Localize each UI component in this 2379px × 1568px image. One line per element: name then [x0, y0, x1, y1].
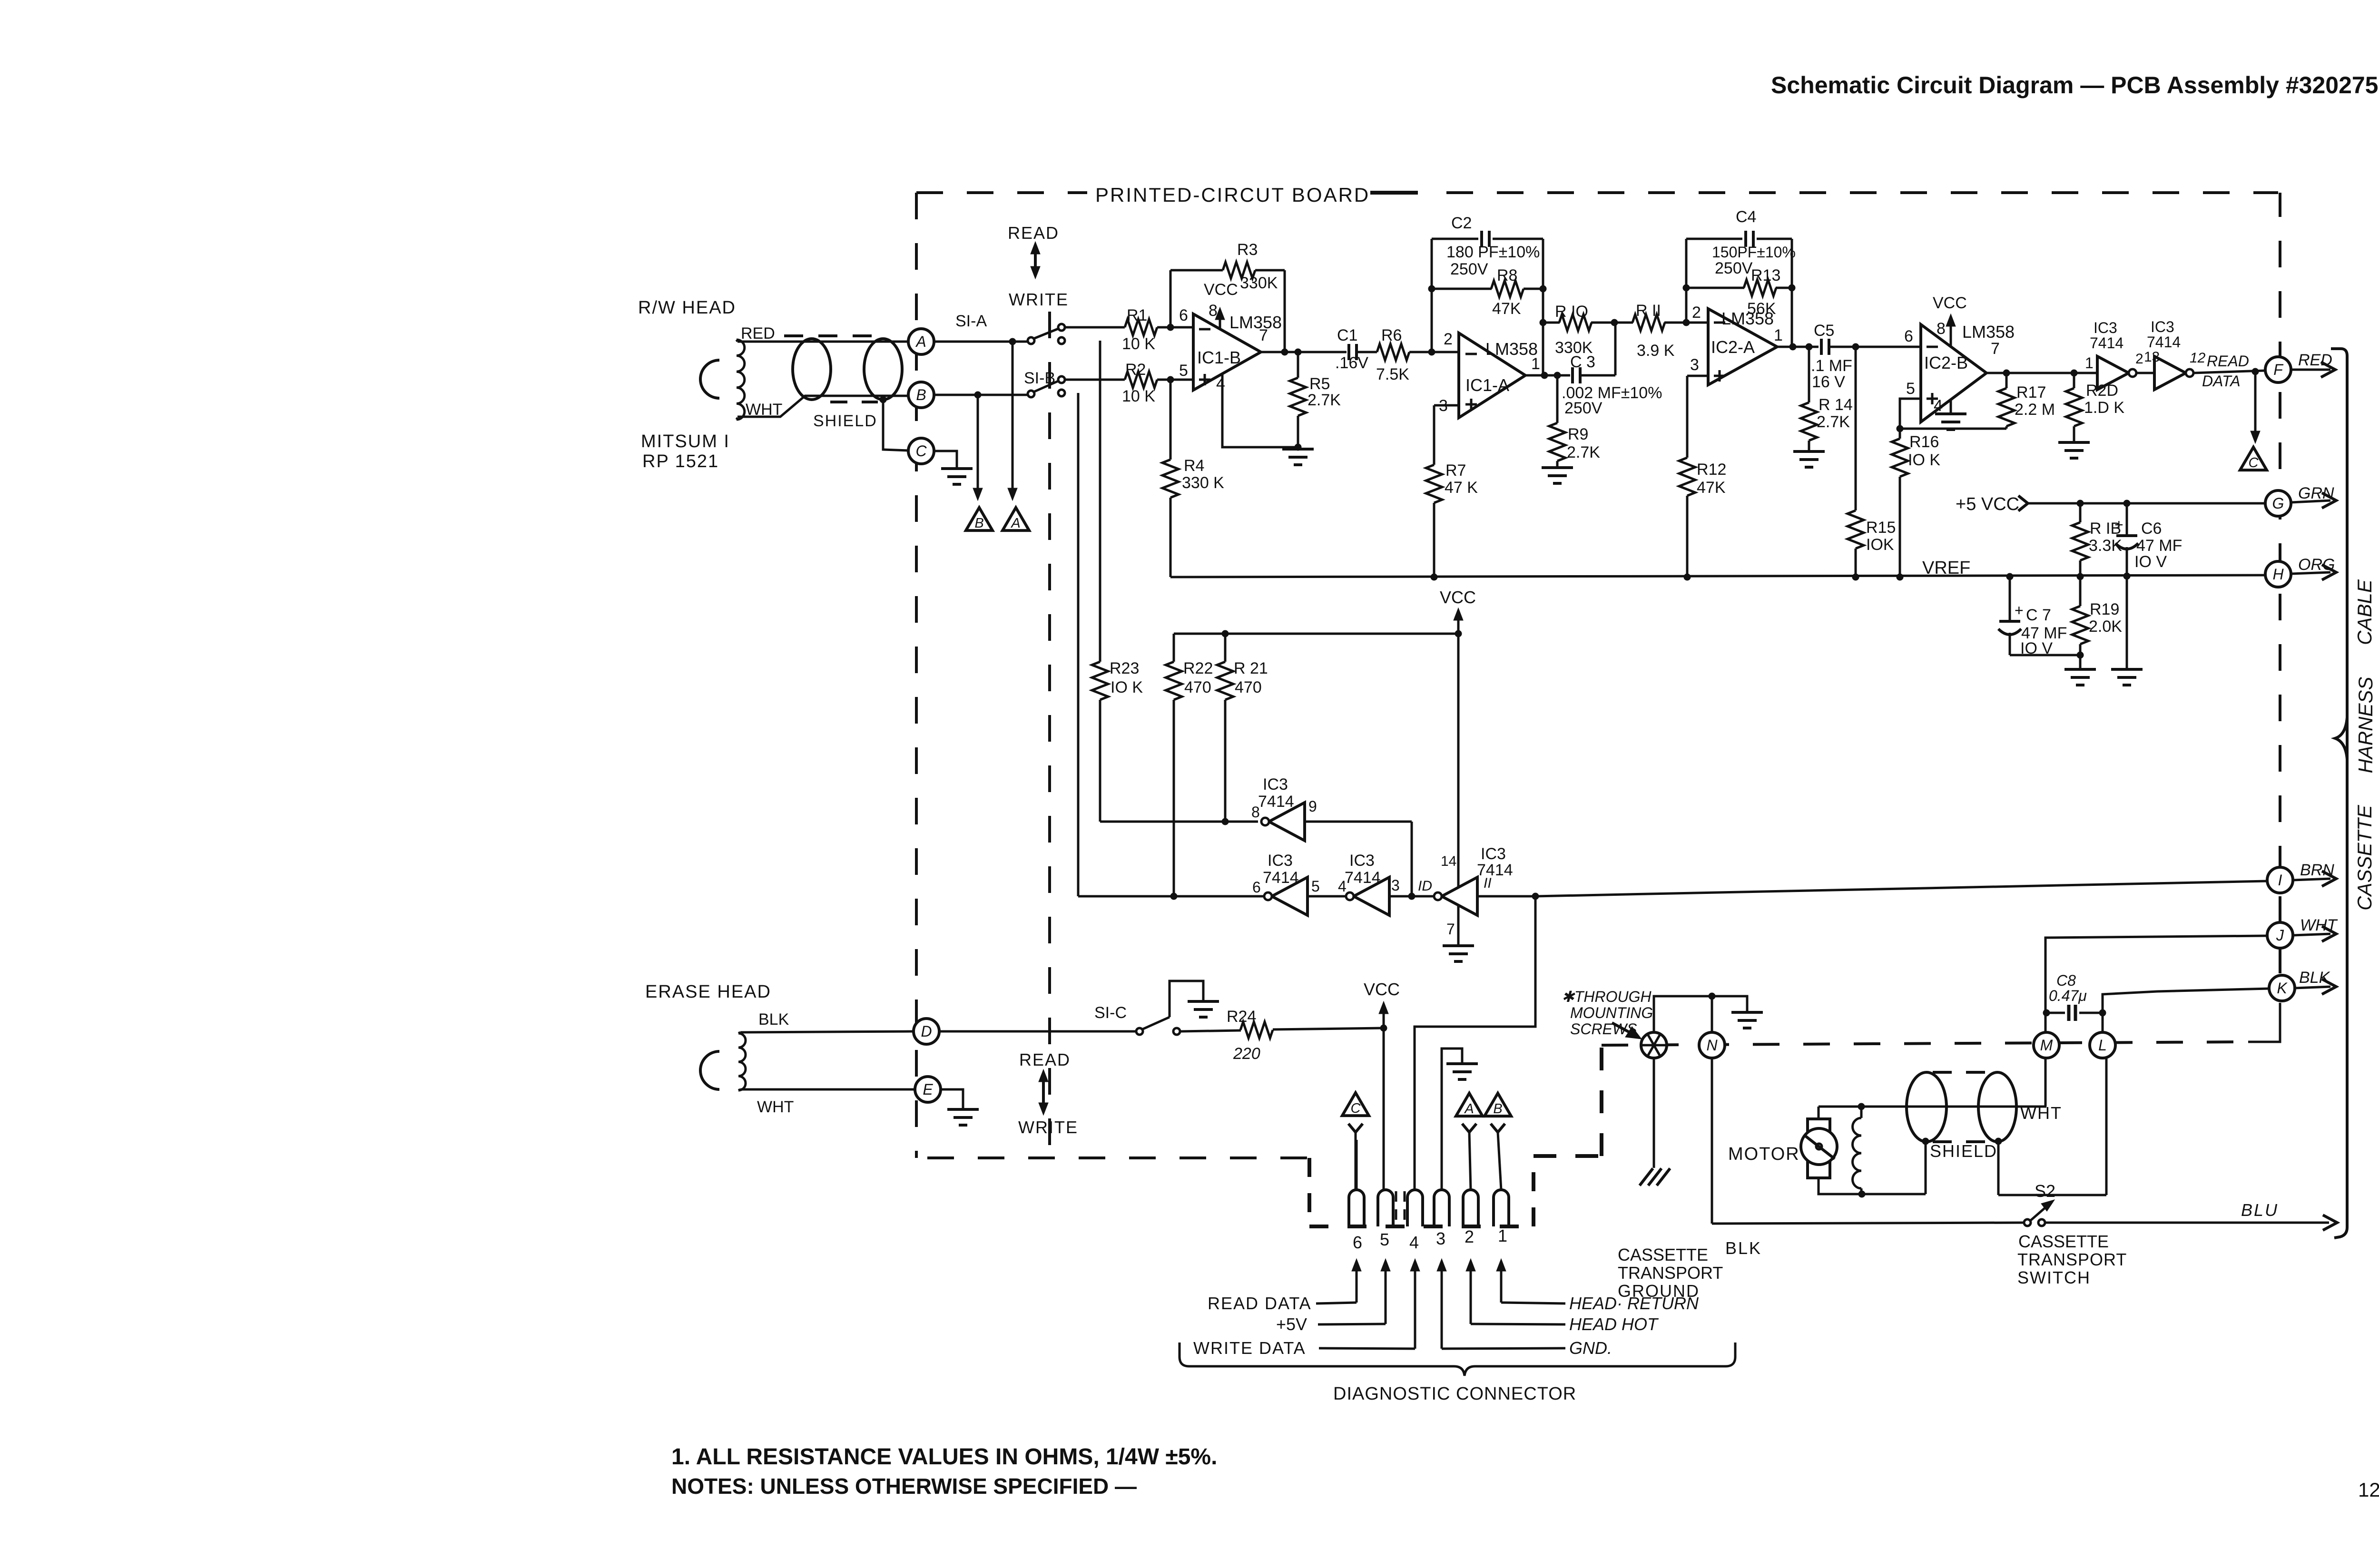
svg-text:250V: 250V — [1450, 260, 1488, 278]
label BLK erase — [758, 1010, 789, 1029]
label RP 1521 — [642, 451, 719, 471]
pcb border label — [1095, 184, 1370, 206]
label S1-A — [955, 312, 987, 330]
wire S1-C to R24 — [1180, 1030, 1241, 1031]
svg-text:MOUNTING: MOUNTING — [1570, 1004, 1653, 1021]
note line 1 — [671, 1444, 1217, 1470]
svg-text:47 MF: 47 MF — [2136, 537, 2182, 555]
label WRITE bottom — [1018, 1117, 1078, 1137]
node A triangle conn — [1456, 1093, 1483, 1190]
wire R1 to pin6 — [1157, 324, 1193, 331]
mounting screw symbol — [1641, 1032, 1667, 1058]
svg-text:VCC: VCC — [1364, 980, 1400, 999]
svg-text:IC3: IC3 — [1349, 852, 1375, 870]
svg-text:8: 8 — [1937, 320, 1946, 338]
cable brace cusp — [2335, 717, 2347, 759]
wire M risers — [2045, 1013, 2047, 1107]
svg-text:B: B — [1493, 1101, 1502, 1117]
wire C8 to K line — [2103, 989, 2269, 1013]
svg-text:A: A — [915, 333, 926, 350]
capacitor C8 — [2043, 972, 2106, 1021]
resistor R3 — [1223, 241, 1278, 292]
wire WHT to E — [740, 1088, 914, 1091]
svg-text:7: 7 — [1991, 340, 2000, 358]
resistor R5 — [1290, 352, 1341, 447]
label S2 — [2035, 1181, 2055, 1201]
svg-text:16 V: 16 V — [1812, 373, 1845, 391]
switch S1-C — [1136, 1017, 1180, 1035]
svg-text:A: A — [1010, 516, 1020, 531]
wire BLK rail — [1712, 1223, 2024, 1224]
E ground wire — [941, 1089, 963, 1108]
wire lower VCC rail — [1174, 630, 1462, 637]
svg-text:R16: R16 — [1909, 433, 1939, 451]
pin3 ground — [1442, 1049, 1478, 1190]
wire I BRN out — [2293, 861, 2336, 886]
svg-text:3: 3 — [1436, 1229, 1445, 1248]
svg-text:PRINTED-CIRCUT BOARD: PRINTED-CIRCUT BOARD — [1095, 184, 1370, 206]
svg-text:R 21: R 21 — [1234, 659, 1268, 677]
wire IC1-B feedback riser — [1170, 270, 1172, 327]
svg-text:R8: R8 — [1497, 266, 1517, 284]
svg-text:470: 470 — [1235, 678, 1262, 696]
VCC arrow IC1-B — [1204, 281, 1238, 329]
svg-text:✱THROUGH: ✱THROUGH — [1562, 988, 1652, 1005]
svg-text:C5: C5 — [1814, 322, 1834, 340]
connector arrow pin — [1466, 1259, 1475, 1324]
svg-text:RED: RED — [741, 324, 775, 343]
pin number 3 — [1436, 1229, 1445, 1248]
svg-text:1. ALL RESISTANCE VALUES IN O: 1. ALL RESISTANCE VALUES IN OHMS, 1/4W ±… — [671, 1444, 1217, 1470]
label MITSUM I — [641, 431, 730, 451]
label READ DATA — [1208, 1294, 1357, 1313]
wire node A drop — [1008, 342, 1017, 500]
pcb border jog up — [1532, 1156, 1535, 1226]
wire inverter to F — [2193, 368, 2265, 375]
connector arrow pin — [1352, 1259, 1361, 1303]
wire C2 left riser — [1428, 239, 1435, 352]
label +5 VCC — [1956, 494, 2028, 514]
screw arrow — [1612, 1023, 1642, 1039]
ground under C6 — [2111, 669, 2143, 685]
svg-text:DATA: DATA — [2202, 372, 2241, 390]
svg-text:Schematic Circuit Diagram — PC: Schematic Circuit Diagram — PCB Assembly… — [1771, 72, 2379, 98]
VCC arrow mid — [1440, 588, 1476, 634]
svg-text:3.9 K: 3.9 K — [1637, 342, 1675, 360]
switch S1-A — [1028, 324, 1065, 344]
svg-text:4: 4 — [1934, 397, 1943, 415]
svg-text:READ: READ — [1019, 1050, 1071, 1069]
wire BLK to D — [740, 1031, 913, 1032]
wire R3 rail right — [1255, 270, 1285, 352]
inverter IC3 row2 a — [1252, 852, 1320, 915]
svg-text:12: 12 — [2358, 1479, 2379, 1501]
wire J line — [2045, 936, 2267, 1013]
wire IC2-B output — [1986, 370, 2097, 376]
svg-text:VCC: VCC — [1440, 588, 1476, 607]
svg-text:R4: R4 — [1184, 457, 1204, 475]
resistor R6 — [1376, 326, 1409, 383]
wire R24 to VCC node — [1273, 1025, 1387, 1031]
svg-text:SHIELD: SHIELD — [1930, 1141, 1997, 1161]
wire IC1-B output — [1261, 349, 1347, 355]
svg-text:MOTOR: MOTOR — [1728, 1144, 1800, 1164]
svg-text:R17: R17 — [2016, 383, 2046, 402]
resistor R22 — [1166, 634, 1213, 896]
svg-text:TRANSPORT: TRANSPORT — [1618, 1263, 1723, 1283]
wire motor top — [1818, 1107, 1820, 1119]
svg-text:S2: S2 — [2035, 1181, 2055, 1201]
svg-text:VCC: VCC — [1933, 294, 1967, 312]
wire C1 to R6 — [1357, 351, 1377, 353]
svg-text:LM358: LM358 — [1229, 313, 1282, 332]
resistor R8 — [1432, 266, 1543, 318]
wire S1-A to R1 — [1065, 326, 1125, 329]
svg-text:5: 5 — [1906, 380, 1915, 398]
pcb border transport row — [1602, 1042, 2248, 1045]
switch gang dashed line — [1048, 312, 1051, 1158]
wire pin2 stub IC2-A — [1683, 319, 1708, 326]
label HEAD HOT — [1471, 1314, 1659, 1334]
capacitor C2 — [1432, 214, 1543, 278]
wire C4 right riser — [1789, 239, 1795, 347]
erase head core — [700, 1051, 719, 1089]
svg-text:R15: R15 — [1866, 519, 1896, 537]
pin number 5 — [1380, 1230, 1389, 1249]
svg-text:9: 9 — [1308, 798, 1317, 815]
motor coil — [1853, 1107, 1862, 1194]
svg-text:13: 13 — [2144, 349, 2160, 365]
svg-text:R2: R2 — [1125, 361, 1146, 379]
svg-text:D: D — [921, 1023, 932, 1040]
resistor R9 — [1549, 375, 1600, 467]
wire node B drop — [973, 395, 983, 500]
svg-text:HEAD HOT: HEAD HOT — [1569, 1314, 1659, 1334]
ground under R14 — [1793, 451, 1825, 467]
svg-text:+: + — [2015, 602, 2024, 619]
svg-text:7: 7 — [1446, 921, 1455, 938]
wire J WHT out — [2293, 916, 2338, 941]
capacitor C3 — [1562, 353, 1662, 417]
read/write arrow bottom — [1039, 1069, 1048, 1115]
S1-C ground hook — [1170, 981, 1203, 1017]
svg-text:A: A — [1464, 1101, 1474, 1117]
page number 12 — [2358, 1479, 2379, 1501]
svg-text:10 K: 10 K — [1122, 335, 1155, 353]
svg-text:WRITE DATA: WRITE DATA — [1193, 1338, 1306, 1358]
terminal E — [915, 1077, 941, 1102]
capacitor C5 — [1811, 322, 1852, 391]
svg-text:R24: R24 — [1227, 1008, 1256, 1026]
resistor R18 — [2072, 503, 2122, 577]
resistor R17 — [1998, 373, 2055, 429]
resistor R15 — [1848, 347, 1896, 577]
svg-text:R6: R6 — [1381, 326, 1402, 344]
svg-text:R5: R5 — [1309, 375, 1330, 393]
capacitor C6 — [2114, 503, 2182, 668]
svg-text:R12: R12 — [1697, 461, 1726, 479]
svg-text:IO V: IO V — [2134, 553, 2167, 571]
svg-text:IC3: IC3 — [1481, 845, 1506, 863]
wire IC1-B pin4 — [1222, 374, 1296, 447]
svg-text:WHT: WHT — [2020, 1103, 2062, 1123]
wire K BLK out — [2295, 969, 2336, 994]
svg-text:0.47μ: 0.47μ — [2049, 987, 2087, 1004]
svg-text:2.0K: 2.0K — [2089, 617, 2122, 636]
pcb border top — [916, 191, 2278, 194]
wire IC1-A output — [1525, 372, 1570, 379]
svg-text:WHT: WHT — [757, 1098, 794, 1116]
wire VCC node to pin5 — [1383, 1028, 1385, 1190]
resistor R13 — [1683, 266, 1792, 318]
svg-text:+5V: +5V — [1276, 1314, 1307, 1334]
capacitor C7 — [1998, 577, 2080, 657]
connector arrow pin — [1381, 1259, 1390, 1324]
svg-text:LM358: LM358 — [1721, 309, 1774, 328]
svg-text:B: B — [916, 386, 926, 403]
ground under R20 — [2058, 442, 2090, 458]
label HEAD RETURN — [1501, 1294, 1699, 1313]
svg-text:R22: R22 — [1183, 659, 1213, 677]
inverter IC3 row2 b — [1338, 852, 1400, 915]
read/write arrow top — [1031, 242, 1040, 279]
svg-text:G: G — [2272, 495, 2284, 512]
label SHIELD — [813, 412, 877, 430]
wire +5 VCC rail — [2028, 500, 2265, 507]
svg-text:WRITE: WRITE — [1009, 290, 1069, 309]
svg-text:BRN: BRN — [2300, 861, 2334, 879]
svg-text:7414: 7414 — [1258, 793, 1294, 811]
wire 7414 row1 — [1100, 818, 1258, 825]
svg-text:4: 4 — [1216, 375, 1225, 393]
svg-text:BLU: BLU — [2241, 1200, 2279, 1220]
VCC arrow IC2-B — [1933, 294, 1967, 346]
ground under R9 — [1542, 468, 1573, 483]
label +5V — [1276, 1314, 1386, 1334]
svg-text:M: M — [2040, 1037, 2053, 1054]
pcb border jog up 2 — [1600, 1045, 1603, 1156]
svg-text:IOK: IOK — [1866, 536, 1894, 554]
pcb border jog down — [1307, 1158, 1311, 1227]
svg-text:BLK: BLK — [1725, 1238, 1762, 1258]
svg-text:SI-A: SI-A — [955, 312, 987, 330]
ground under R5 — [1282, 444, 1314, 465]
inverter IC3 b — [2136, 318, 2206, 390]
wire H ORG out — [2291, 556, 2336, 580]
svg-text:IC1-A: IC1-A — [1465, 375, 1509, 395]
vertical label CABLE — [2353, 579, 2376, 645]
resistor R16 — [1892, 429, 1940, 577]
wire S1-B to R2 — [1065, 379, 1125, 381]
wire RED to A — [737, 341, 908, 343]
resistor R4 — [1162, 380, 1224, 577]
svg-text:L: L — [2098, 1037, 2107, 1054]
svg-text:150PF±10%: 150PF±10% — [1712, 244, 1796, 261]
svg-text:R13: R13 — [1751, 266, 1780, 284]
svg-text:7414: 7414 — [2090, 334, 2123, 352]
node B triangle conn — [1484, 1093, 1511, 1190]
svg-text:C 7: C 7 — [2026, 606, 2051, 624]
node C triangle conn — [1342, 1093, 1369, 1190]
label DIAGNOSTIC CONNECTOR — [1333, 1384, 1576, 1404]
wire VREF rail — [1170, 573, 2265, 580]
label S1-C — [1094, 1004, 1127, 1022]
svg-text:330 K: 330 K — [1182, 474, 1224, 492]
ground at S1-C — [1188, 1001, 1219, 1017]
svg-text:C: C — [1351, 1101, 1361, 1116]
terminal G — [2265, 490, 2291, 516]
svg-text:ERASE HEAD: ERASE HEAD — [645, 982, 771, 1002]
svg-text:+: + — [2114, 516, 2123, 533]
connector brace — [1180, 1343, 1735, 1376]
svg-text:R IO: R IO — [1555, 303, 1588, 321]
switch S2 — [2024, 1200, 2055, 1226]
resistor R20 — [2066, 373, 2124, 441]
svg-text:C4: C4 — [1736, 208, 1756, 226]
wire 7414 row2 left — [1078, 393, 1264, 900]
wire C3 to R10/R11 node — [1580, 324, 1615, 375]
resistor R1 — [1122, 306, 1157, 353]
svg-text:2: 2 — [2135, 351, 2143, 367]
wire motor bottom — [1819, 1178, 1926, 1197]
svg-text:IC3: IC3 — [2151, 318, 2174, 335]
ground under 7414 — [1443, 946, 1474, 961]
svg-text:R II: R II — [1636, 302, 1661, 320]
svg-text:C8: C8 — [2056, 972, 2076, 989]
terminal B — [908, 382, 934, 408]
label WHT motor — [2020, 1103, 2062, 1123]
transport ground symbol — [1640, 1168, 1670, 1186]
wire row2 to I — [1477, 881, 2267, 900]
op-amp IC1-A — [1439, 330, 1540, 418]
wire VCC to pin14 — [1457, 634, 1460, 888]
wire R6 to node2 — [1409, 349, 1435, 355]
svg-text:BLK: BLK — [758, 1010, 789, 1029]
resistor R10 — [1543, 303, 1614, 357]
terminal N — [1699, 1032, 1725, 1058]
svg-text:R1: R1 — [1127, 306, 1147, 324]
svg-text:RED: RED — [2298, 351, 2332, 369]
pcb border right — [2279, 193, 2281, 973]
terminal M — [2034, 1032, 2059, 1058]
svg-text:READ: READ — [1008, 223, 1059, 243]
pin number 2 — [1465, 1227, 1474, 1246]
terminal I — [2267, 867, 2293, 893]
inverter IC3 a — [2085, 319, 2143, 390]
inverter IC3 row1 — [1251, 775, 1317, 841]
svg-text:470: 470 — [1184, 678, 1211, 696]
wire C2 right riser — [1540, 239, 1546, 375]
svg-text:1: 1 — [1498, 1226, 1507, 1245]
inverter IC3 row2 c — [1418, 845, 1513, 915]
svg-text:IC2-B: IC2-B — [1924, 353, 1968, 372]
connector arrow pin — [1437, 1259, 1446, 1349]
resistor R2 — [1122, 361, 1157, 405]
cable harness line — [2331, 349, 2347, 1238]
label READ DATA net — [2202, 353, 2249, 390]
svg-text:6: 6 — [1179, 306, 1188, 324]
svg-text:2: 2 — [1444, 330, 1453, 348]
svg-text:READ: READ — [2207, 353, 2249, 370]
svg-text:47 K: 47 K — [1445, 479, 1478, 497]
svg-text:R2D: R2D — [2086, 382, 2118, 400]
label WHT erase — [757, 1098, 794, 1116]
svg-text:CASSETTE: CASSETTE — [1618, 1245, 1708, 1264]
svg-text:330K: 330K — [1240, 274, 1278, 292]
wire B to S1-B — [934, 392, 1028, 398]
shield tap to C — [880, 396, 908, 451]
svg-text:+5 VCC: +5 VCC — [1956, 494, 2019, 514]
wire pin2 stub IC1-A — [1432, 351, 1459, 353]
op-amp IC2-B — [1904, 320, 2015, 422]
resistor R19 — [2072, 577, 2122, 668]
svg-text:I: I — [2278, 872, 2282, 889]
svg-text:ORG: ORG — [2298, 556, 2335, 574]
svg-text:12: 12 — [2190, 350, 2206, 366]
svg-text:CASSETTE: CASSETTE — [2353, 804, 2376, 911]
vertical label CASSETTE — [2353, 804, 2376, 911]
svg-text:CABLE: CABLE — [2353, 579, 2376, 645]
label GND. — [1442, 1338, 1612, 1358]
svg-text:GND.: GND. — [1569, 1338, 1612, 1358]
svg-text:ID: ID — [1418, 878, 1432, 894]
svg-text:H: H — [2272, 566, 2284, 583]
resistor R11 — [1611, 302, 1686, 360]
svg-text:LM358: LM358 — [1485, 339, 1538, 359]
svg-text:SHIELD: SHIELD — [813, 412, 877, 430]
wire L riser top — [2102, 1013, 2104, 1032]
svg-text:6: 6 — [1353, 1233, 1362, 1252]
svg-text:C: C — [2249, 455, 2259, 470]
svg-text:BLK: BLK — [2299, 969, 2330, 987]
svg-text:IC2-A: IC2-A — [1711, 337, 1755, 357]
wire node C drop — [2251, 372, 2260, 443]
R/W head core — [700, 360, 719, 398]
svg-text:220: 220 — [1233, 1045, 1260, 1063]
label MOTOR — [1728, 1144, 1800, 1164]
label READ bottom — [1019, 1050, 1071, 1069]
svg-text:R3: R3 — [1237, 241, 1258, 259]
ground at E — [947, 1109, 979, 1125]
svg-text:K: K — [2277, 980, 2288, 997]
svg-text:GROUND: GROUND — [1618, 1281, 1700, 1301]
svg-text:CASSETTE: CASSETTE — [2018, 1232, 2109, 1251]
VCC arrow low — [1364, 980, 1400, 1028]
node B triangle — [966, 508, 993, 531]
motor shield ellipse 1 — [1907, 1072, 1946, 1142]
svg-text:2.2 M: 2.2 M — [2015, 401, 2055, 419]
shield dashed top — [784, 334, 880, 337]
label CASSETTE TRANSPORT SWITCH — [2017, 1232, 2127, 1287]
svg-text:5: 5 — [1380, 1230, 1389, 1249]
svg-text:C1: C1 — [1337, 326, 1357, 344]
vertical label HARNESS — [2354, 676, 2377, 773]
switch S1-B — [1028, 376, 1065, 397]
pcb border elbow to K — [2248, 1003, 2280, 1042]
pcb border bottom left — [927, 1156, 1309, 1159]
resistor R23 — [1092, 341, 1143, 822]
label READ top — [1008, 223, 1059, 243]
svg-text:NOTES: UNLESS OTHERWISE SPECIF: NOTES: UNLESS OTHERWISE SPECIFIED — — [671, 1474, 1137, 1499]
label through mounting screws — [1562, 988, 1653, 1038]
wire IC2-A output — [1777, 343, 1819, 350]
wire inv a-b — [1307, 895, 1346, 898]
svg-text:8: 8 — [1251, 804, 1260, 821]
connector arrow pin — [1496, 1259, 1506, 1303]
pcb border under connector — [1309, 1225, 1534, 1228]
resistor R24 — [1227, 1008, 1273, 1063]
svg-text:3: 3 — [1391, 877, 1400, 894]
